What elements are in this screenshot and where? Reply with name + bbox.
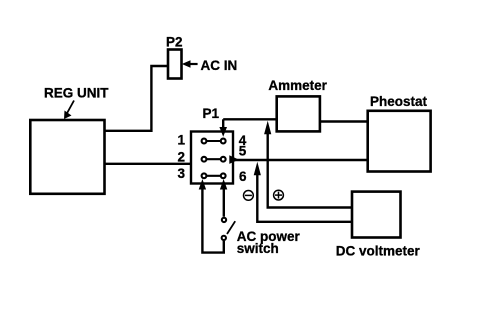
svg-text:switch: switch <box>237 241 279 256</box>
svg-text:5: 5 <box>239 143 247 158</box>
svg-text:DC voltmeter: DC voltmeter <box>336 244 421 259</box>
svg-text:REG UNIT: REG UNIT <box>44 86 109 101</box>
svg-text:Pheostat: Pheostat <box>370 94 428 109</box>
svg-text:P1: P1 <box>203 106 220 121</box>
svg-text:P2: P2 <box>166 35 183 50</box>
svg-text:Ammeter: Ammeter <box>268 78 327 93</box>
svg-text:AC IN: AC IN <box>201 58 238 73</box>
svg-text:3: 3 <box>177 166 185 181</box>
svg-text:2: 2 <box>177 149 185 164</box>
svg-text:1: 1 <box>177 133 185 148</box>
svg-text:6: 6 <box>239 169 247 184</box>
